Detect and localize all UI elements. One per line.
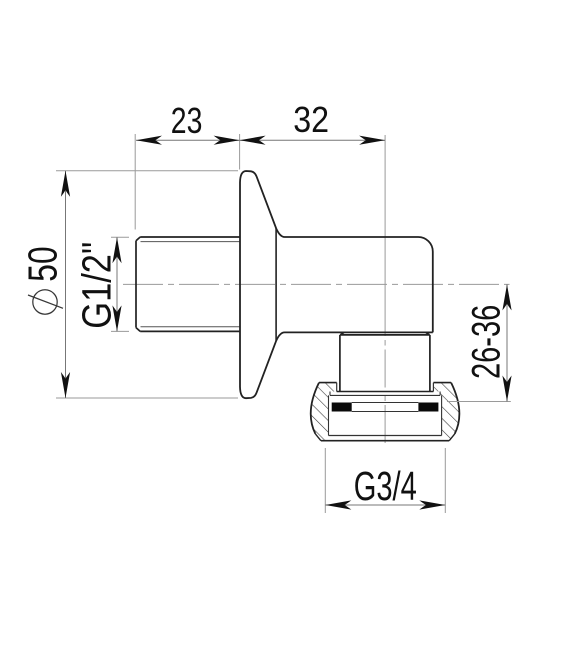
nut inner steps — [337, 383, 434, 392]
dimension G1/2 — [74, 237, 130, 331]
nut bottom edge — [321, 440, 449, 442]
dimension G3/4 — [325, 448, 445, 513]
svg-text:32: 32 — [293, 99, 329, 140]
nut hatching right — [433, 383, 459, 441]
centerline vertical (outlet axis / 32 extension) — [384, 135, 386, 336]
wall flange (escutcheon) — [240, 171, 285, 398]
centerline horizontal (main axis) — [123, 283, 510, 285]
washer — [337, 391, 434, 393]
dimension 32 — [240, 99, 386, 145]
svg-text:50: 50 — [20, 246, 66, 281]
dimension 23 — [135, 100, 239, 230]
thread root thin lines — [141, 242, 240, 327]
svg-text:23: 23 — [171, 100, 203, 141]
nut hatching left — [311, 383, 337, 441]
nut top face — [319, 382, 451, 384]
outlet pipe — [340, 333, 430, 392]
svg-text:26-36: 26-36 — [464, 305, 508, 379]
nut cavity bottom — [329, 435, 442, 437]
dimension diameter 50 — [20, 171, 239, 398]
thread G1/2 pipe (wall side) — [136, 237, 240, 331]
body — [285, 237, 433, 332]
flange rim edge — [275, 228, 277, 340]
nut side bulges — [311, 383, 460, 434]
svg-text:G1/2": G1/2" — [74, 242, 120, 329]
dimension 26-36 — [447, 284, 512, 401]
svg-text:G3/4: G3/4 — [354, 463, 417, 509]
nut bottom chamfers — [315, 434, 454, 441]
diameter symbol — [33, 290, 57, 314]
nut inner walls — [329, 395, 442, 435]
gasket seal (black) — [332, 403, 352, 412]
union nut — [311, 383, 460, 441]
